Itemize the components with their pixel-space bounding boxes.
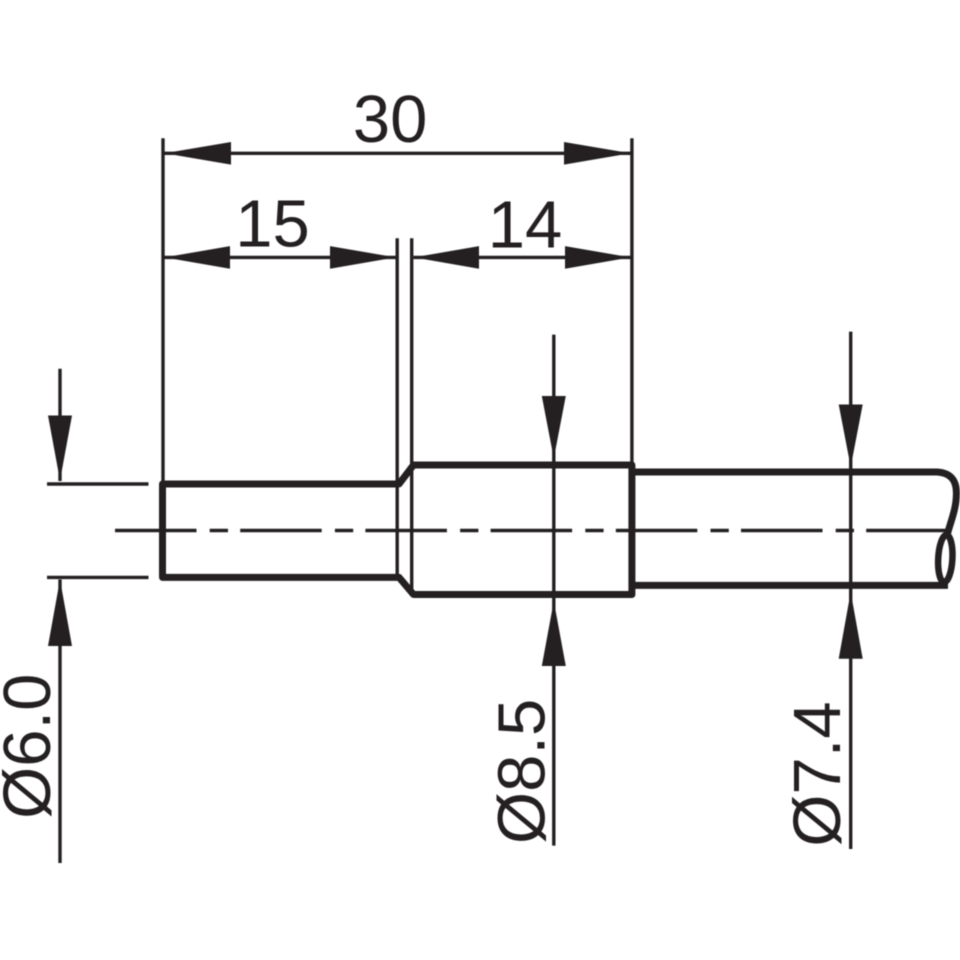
svg-text:Ø6.0: Ø6.0 — [0, 674, 65, 819]
svg-text:30: 30 — [353, 82, 428, 157]
svg-text:15: 15 — [235, 187, 310, 262]
svg-text:Ø8.5: Ø8.5 — [485, 699, 560, 844]
svg-text:Ø7.4: Ø7.4 — [780, 701, 855, 846]
svg-text:14: 14 — [488, 187, 563, 262]
